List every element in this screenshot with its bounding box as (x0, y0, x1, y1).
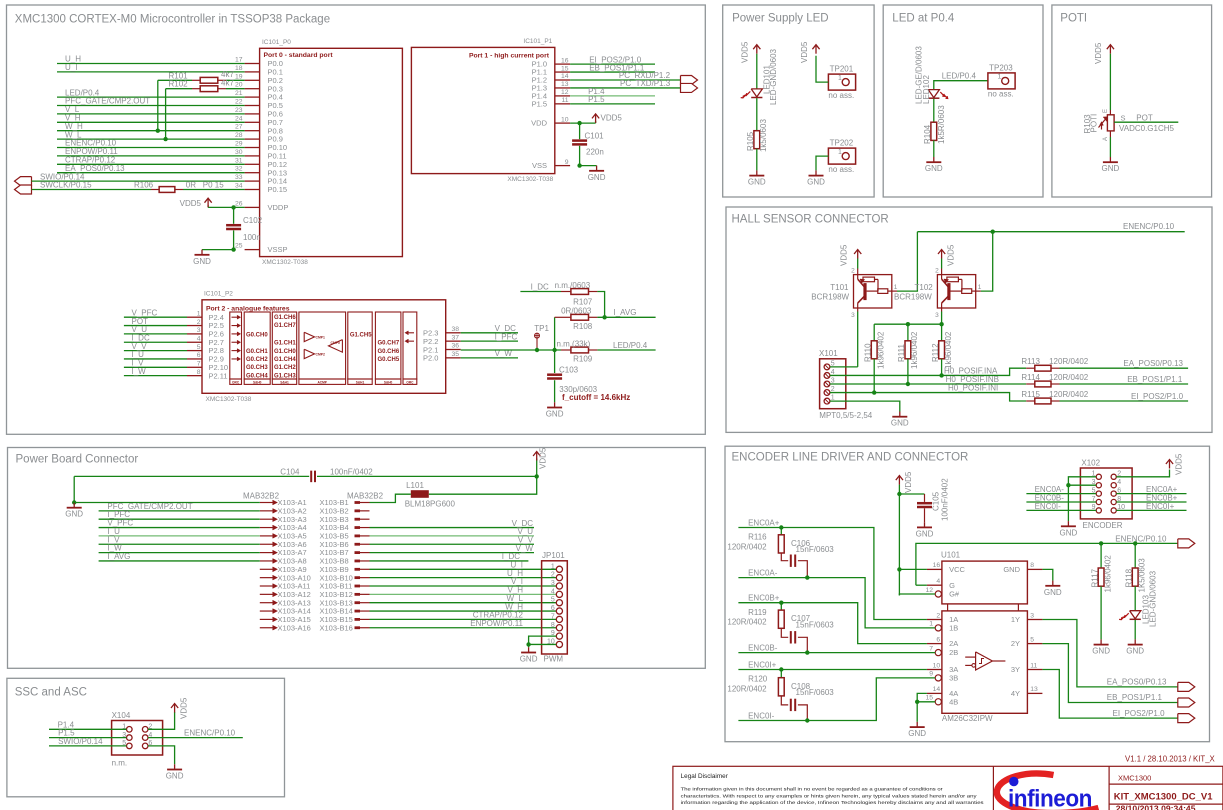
svg-text:POTI: POTI (1089, 114, 1098, 133)
svg-text:L101: L101 (406, 481, 424, 490)
wire C104 to VDD5 corner (317, 475, 537, 477)
X102 pin 2 (1111, 474, 1116, 479)
JP101 pin 7 (556, 616, 562, 622)
connector pin X103-A10 (260, 577, 273, 579)
svg-text:G1.CH0: G1.CH0 (274, 349, 296, 355)
svg-text:JP101: JP101 (542, 551, 565, 560)
connector pin X103-B8 (355, 560, 361, 563)
wire net ENC0I- (738, 678, 935, 721)
IC IC101_P1 block (Port 1) (411, 47, 554, 173)
wire net W_H X103-B14 to JP101 pin 6 (370, 610, 557, 612)
svg-text:37: 37 (451, 334, 459, 341)
junction C107 ENC0B- (805, 650, 809, 654)
ground at VSSP (202, 249, 234, 251)
svg-text:9: 9 (929, 671, 933, 678)
svg-text:23: 23 (235, 107, 243, 114)
svg-text:GND: GND (807, 178, 825, 187)
pin 16 P1.0 of IC101_P1 (555, 63, 570, 65)
svg-text:120R/0402: 120R/0402 (1049, 357, 1089, 366)
svg-text:T102: T102 (915, 283, 934, 292)
wire net PC_TXD/P1.3 with port flag (570, 87, 680, 89)
junction VDDP (231, 205, 235, 209)
wire R107 to I_AVG junction (597, 292, 604, 318)
svg-text:POTI: POTI (1060, 13, 1087, 25)
wire net PFC_GATE/CMP2.OUT to X103-A2 (99, 510, 260, 512)
resistor R104 1k5R/0603 (933, 99, 935, 122)
ferrite bead L101 BLM18PG600 (411, 490, 429, 498)
X101 pin 3 (824, 381, 830, 387)
connector pin X103-A15 (260, 618, 273, 620)
wire net LED/P0.4 from pin 36 (461, 349, 561, 351)
wire net P1.5 (570, 103, 655, 105)
svg-text:35: 35 (451, 351, 459, 358)
svg-text:13: 13 (561, 81, 569, 88)
wire VDD5 to L101 (429, 476, 537, 494)
VDD5 arrow at VDD (570, 122, 596, 124)
wire net EA_POS0/P0.13 output (1042, 620, 1177, 687)
JP101 pin 3 (556, 583, 562, 589)
wire net V_W at pin 35 (461, 357, 518, 359)
X102 pin 5 (1096, 491, 1101, 496)
port flag SWCLK/P0.15 (15, 185, 32, 194)
testpoint TP203 (988, 73, 1015, 89)
wire net EB_POS1/P1.1 output (1042, 644, 1177, 703)
svg-text:4: 4 (551, 588, 555, 595)
wire TP201 to VDD5 (816, 56, 828, 82)
svg-text:VDD5: VDD5 (1094, 42, 1103, 64)
wire net ENC0A+ (738, 528, 927, 620)
svg-text:G0.CH5: G0.CH5 (378, 357, 400, 363)
wire net I_DC (124, 341, 187, 343)
U101 pin 9 3B (935, 675, 941, 681)
JP101 pin 6 (556, 608, 562, 614)
junction I_AVG (602, 315, 606, 319)
svg-text:29: 29 (235, 141, 243, 148)
U101 pin 2 1A (927, 619, 942, 621)
svg-text:7: 7 (551, 613, 555, 620)
svg-text:1: 1 (197, 310, 201, 317)
wire JP101 pin 9 to GND (529, 636, 557, 644)
svg-text:SWCLK/P0.15: SWCLK/P0.15 (40, 181, 92, 190)
pin 5 P2.8 of IC101_P2 (187, 350, 202, 352)
pin 20 P0.3 of IC101_P0 (245, 88, 260, 90)
pin 1 P2.4 of IC101_P2 (187, 316, 202, 318)
pin 3 P2.6 of IC101_P2 (187, 333, 202, 335)
wire net U_I X103-B9 to JP101 pin 1 (370, 568, 557, 570)
wire net V_PFC (124, 316, 187, 318)
U101 pin 10 3A (927, 669, 942, 671)
junction C108 ENC0I- (805, 718, 809, 722)
frame: Power Supply LED section box (723, 5, 874, 197)
T101 pin 2 emitter to VDD5 (857, 269, 859, 275)
svg-text:VDD5: VDD5 (1175, 453, 1184, 475)
svg-text:T101: T101 (830, 283, 849, 292)
pin 15 P1.1 of IC101_P1 (555, 71, 570, 73)
svg-text:11: 11 (1030, 662, 1037, 669)
svg-text:LED-GND/0603: LED-GND/0603 (1149, 570, 1158, 627)
svg-text:4Y: 4Y (1011, 689, 1020, 698)
resistor R116 120R/0402 (780, 528, 782, 535)
wire net V_V (124, 350, 187, 352)
port flag EB_POS1 (1178, 698, 1195, 707)
svg-text:C101: C101 (585, 132, 605, 141)
wire net EA_POS0/P0.13 to pin 32 (57, 172, 245, 174)
svg-text:G0.CH3: G0.CH3 (246, 365, 268, 371)
svg-text:GND: GND (1126, 647, 1144, 656)
svg-text:Legal Disclaimer: Legal Disclaimer (681, 773, 729, 780)
svg-text:I_AVG: I_AVG (614, 308, 637, 317)
JP101 pin 10 (556, 641, 562, 647)
X102 pin 9 (1096, 508, 1101, 513)
svg-text:SWIO/P0.14: SWIO/P0.14 (58, 737, 103, 746)
wire X102 pin2 to VDD5 (1116, 470, 1169, 477)
svg-text:XMC1300 CORTEX-M0 Microcontrol: XMC1300 CORTEX-M0 Microcontroller in TSS… (15, 14, 330, 26)
svg-text:R111: R111 (897, 344, 906, 362)
svg-text:6: 6 (551, 605, 555, 612)
IC101_P2 inner block S&H0 right (375, 312, 401, 379)
wire net ENC0I+ from X102 (1116, 509, 1186, 511)
VDD5 arrow LED101 (756, 46, 758, 54)
connector pin X103-B4 (355, 526, 361, 529)
svg-text:33: 33 (235, 174, 243, 181)
svg-text:36: 36 (451, 343, 459, 350)
resistor R115 120R/0402 (1026, 400, 1035, 402)
svg-text:U_I: U_I (65, 63, 77, 72)
svg-text:R114: R114 (1021, 373, 1040, 382)
junction on W_L (163, 137, 167, 141)
svg-text:LED-GE/D/0603: LED-GE/D/0603 (915, 46, 924, 104)
capacitor C107 15nF/0603 (790, 631, 792, 643)
svg-text:8: 8 (197, 369, 201, 376)
wire net SWIO/P0.14 to X104 pin5 (49, 745, 127, 747)
svg-text:1k96/0402: 1k96/0402 (1103, 555, 1112, 593)
wire net ENC0B- (738, 652, 935, 654)
svg-text:X102: X102 (1081, 459, 1100, 468)
wire net ENENC/P0.10 top rail (917, 231, 1184, 233)
svg-text:5: 5 (197, 344, 201, 351)
svg-text:3Y: 3Y (1011, 665, 1020, 674)
wire net I_U to X103-A5 (99, 535, 260, 537)
svg-text:MPT0,5/5-2,54: MPT0,5/5-2,54 (819, 411, 872, 420)
svg-text:GND: GND (916, 529, 934, 538)
VDD5 arrow T102 (941, 251, 943, 259)
wire net U_H X103-B10 to JP101 pin 2 (370, 577, 557, 579)
svg-text:LED-GND/0603: LED-GND/0603 (769, 48, 778, 105)
ground POTI (1109, 137, 1111, 157)
svg-text:VDD5: VDD5 (180, 199, 202, 208)
capacitor C104 100nF/0402 (310, 471, 312, 483)
wire net ENC0A- (738, 578, 935, 628)
svg-text:XMC1300: XMC1300 (1118, 773, 1151, 782)
pin 27 P0.8 of IC101_P0 (245, 130, 260, 132)
wire net ENC0I+ (738, 669, 927, 671)
connector pin X103-B7 (355, 551, 361, 554)
pin 24 P0.7 of IC101_P0 (245, 121, 260, 123)
svg-text:4: 4 (197, 335, 201, 342)
svg-text:POT: POT (1136, 113, 1153, 122)
svg-text:VCC: VCC (949, 565, 965, 574)
svg-text:1: 1 (551, 563, 555, 570)
ground SSC (174, 764, 176, 769)
pin 19 P0.2 of IC101_P0 (245, 79, 260, 81)
wire net U_I to pin 18 (57, 71, 245, 73)
wire X101 pin1 to GND (830, 401, 900, 411)
capacitor C106 15nF/0603 (790, 555, 792, 567)
resistor R112 1k96/0402 (941, 324, 943, 341)
connector pin X103-B10 (355, 576, 361, 579)
svg-text:5: 5 (1030, 636, 1034, 643)
svg-text:VADC0.G1CH5: VADC0.G1CH5 (1119, 124, 1175, 133)
svg-text:AM26C32IPW: AM26C32IPW (942, 714, 993, 723)
wire net V_H X103-B12 to JP101 pin 4 (370, 593, 557, 595)
svg-text:8: 8 (1030, 562, 1034, 569)
wire net ENC0B+ (738, 603, 927, 644)
svg-text:15: 15 (925, 695, 933, 702)
junction R116 (779, 525, 783, 529)
resistor R107 n.m./0603 (561, 291, 570, 293)
wire X104 pin6 to GND (148, 746, 175, 764)
testpoint TP202 (828, 148, 855, 164)
wire net I_AVG to X103-A8 (99, 560, 260, 562)
U101 pin 13 4Y (1027, 692, 1042, 694)
svg-text:ORC: ORC (232, 380, 240, 384)
svg-text:8: 8 (551, 622, 555, 629)
svg-text:31: 31 (235, 157, 243, 164)
resistor R120 120R/0402 (780, 670, 782, 678)
svg-text:2B: 2B (949, 648, 958, 657)
svg-text:4: 4 (936, 578, 940, 585)
wire net P1.4 to X104 pin1 (49, 728, 127, 730)
wire net I_U (124, 358, 187, 360)
svg-text:IC101_P1: IC101_P1 (523, 38, 552, 45)
svg-text:220n: 220n (586, 147, 604, 156)
connector pin X103-B13 (355, 601, 361, 604)
wire net V_U (124, 333, 187, 335)
junction R120 (779, 667, 783, 671)
T101 pin 1 base to ENENC (892, 290, 897, 292)
connector pin X103-A1 (260, 502, 273, 504)
svg-text:24: 24 (235, 115, 243, 122)
wire net H0_POSIF.INI from X101 pin2 (830, 393, 1026, 401)
pin 8 P2.11 of IC101_P2 (187, 375, 202, 377)
IC101_P2 inner block S&H0 left (244, 312, 270, 379)
resistor R118 1K5/0603 (1134, 543, 1136, 568)
wire net EI_POS2/P1.0 hall (1060, 400, 1189, 402)
pin 10 VDD of IC101_P1 (555, 122, 570, 124)
wire net V_I X103-B11 to JP101 pin 3 (370, 585, 557, 587)
JP101 pin 4 (556, 591, 562, 597)
svg-text:S&H0: S&H0 (384, 380, 393, 384)
svg-text:VSSP: VSSP (268, 245, 288, 254)
wire net ENC0A- to X102 (1026, 493, 1096, 495)
svg-text:C105: C105 (932, 491, 941, 511)
frame: Power Board Connector section box (8, 448, 706, 669)
U101 block connectors (947, 604, 949, 611)
wire L101 to X103-B1 (370, 494, 411, 502)
wire G# to VCC net (899, 594, 935, 595)
svg-text:G1.CH6: G1.CH6 (274, 315, 296, 321)
svg-text:2Y: 2Y (1011, 639, 1020, 648)
wire net ENC0B- to X102 (1026, 501, 1096, 503)
svg-text:17: 17 (235, 57, 243, 64)
svg-text:GND: GND (908, 729, 926, 738)
pin 26 VDDP of IC101_P0 (245, 206, 260, 208)
svg-text:ENENC/P0.10: ENENC/P0.10 (184, 729, 236, 738)
connector pin X103-A7 (260, 552, 273, 554)
JP101 pin 8 (556, 625, 562, 631)
wire pullup rail (874, 323, 941, 325)
junction R112 INA (939, 373, 943, 377)
svg-text:HALL SENSOR CONNECTOR: HALL SENSOR CONNECTOR (732, 214, 889, 226)
svg-text:S&H1: S&H1 (356, 380, 365, 384)
pin 12 P1.4 of IC101_P1 (555, 95, 570, 97)
X101 pin 5 (824, 364, 830, 370)
svg-text:ENC0B+: ENC0B+ (748, 594, 780, 603)
pin 14 P1.2 of IC101_P1 (555, 79, 570, 81)
svg-text:16: 16 (933, 562, 941, 569)
svg-text:R119: R119 (748, 608, 767, 617)
svg-text:G#: G# (949, 590, 960, 599)
wire net LED/P0.4 to TP203 (934, 81, 988, 90)
T102 pin 1 base to ENENC (976, 290, 981, 292)
svg-text:1K5/0603: 1K5/0603 (1138, 558, 1147, 593)
svg-text:R108: R108 (573, 322, 593, 331)
svg-text:TP1: TP1 (534, 324, 549, 333)
wire net V_W from X103-B7 (370, 552, 535, 554)
pin 28 P0.9 of IC101_P0 (245, 138, 260, 140)
svg-text:30: 30 (235, 149, 243, 156)
IC U101_P0 block (IC101_P0 Port 0) (260, 48, 403, 256)
svg-text:3: 3 (935, 312, 939, 319)
wire net I_W to X103-A7 (99, 552, 260, 554)
X104 pin 3 (127, 735, 133, 741)
svg-text:ENC0I+: ENC0I+ (748, 660, 777, 669)
svg-text:n.m.: n.m. (112, 758, 128, 767)
JP101 pin 1 (556, 566, 562, 572)
JP101 pin 2 (556, 575, 562, 581)
wire R102 to W_L (165, 89, 167, 139)
svg-text:I_AVG: I_AVG (107, 552, 130, 561)
svg-text:XMC1302-T038: XMC1302-T038 (507, 176, 553, 183)
svg-text:14: 14 (561, 73, 569, 80)
junction rail T102/R112 (939, 322, 943, 326)
svg-text:BLM18PG600: BLM18PG600 (405, 500, 456, 509)
resistor R113 120R/0402 (1026, 367, 1035, 369)
svg-text:TP202: TP202 (830, 139, 854, 148)
svg-text:ORC: ORC (406, 380, 414, 384)
svg-text:no ass.: no ass. (988, 90, 1014, 99)
svg-text:E: E (1103, 109, 1109, 113)
pin 13 P1.3 of IC101_P1 (555, 87, 570, 89)
connector pin X103-B3 (355, 518, 361, 521)
connector pin X103-B2 (355, 509, 361, 512)
svg-text:PC_TXD/P1.3: PC_TXD/P1.3 (620, 79, 671, 88)
resistor R102 4k7 (166, 88, 192, 90)
junction R111 INB (906, 382, 910, 386)
wire net V_L to pin 23 (57, 113, 245, 115)
connector pin X103-B12 (355, 593, 361, 596)
T102 pin 2 emitter to VDD5 (941, 269, 943, 275)
U101 pin 6 2A (927, 643, 942, 645)
junction VDD5 C105 (897, 492, 901, 496)
pin 33 P0.14 of IC101_P0 (245, 180, 260, 182)
svg-text:ENENC/P0.10: ENENC/P0.10 (1123, 222, 1175, 231)
wire net ENENC/P0.10 encoder (1101, 542, 1178, 544)
connector pin X103-A11 (260, 585, 273, 587)
pin 37 P2.2 of IC101_P2 (446, 340, 461, 342)
wire net POT from wiper S (1114, 121, 1178, 123)
wire GND rail left (73, 476, 75, 502)
wire net W_H to pin 27 (57, 130, 245, 132)
svg-text:GND: GND (891, 419, 909, 428)
svg-text:18: 18 (235, 65, 243, 72)
svg-text:ENC0I-: ENC0I- (748, 711, 775, 720)
connector pin X103-B11 (355, 585, 361, 588)
svg-text:IC101_P0: IC101_P0 (262, 39, 291, 46)
ground X101 (899, 412, 901, 417)
ground power board left (73, 503, 75, 508)
svg-text:EB_POS1/P1.1: EB_POS1/P1.1 (1107, 693, 1163, 702)
testpoint TP201 (828, 74, 855, 90)
svg-text:R107: R107 (573, 298, 593, 307)
IC101_P2 inner block ORC right (403, 312, 417, 379)
wire net CTRAP/P0.12 X103-B15 to JP101 pin 7 (370, 618, 557, 620)
svg-text:ACMP: ACMP (318, 380, 328, 384)
port flag EI_POS2 (1178, 714, 1195, 723)
pin 17 P0.0 of IC101_P0 (245, 63, 260, 65)
svg-text:I_DC: I_DC (531, 283, 549, 292)
svg-text:27: 27 (235, 124, 243, 131)
svg-text:15nF/0603: 15nF/0603 (796, 545, 835, 554)
junction R119 (779, 601, 783, 605)
svg-text:1k5/0603: 1k5/0603 (759, 119, 768, 152)
svg-text:G0.CH6: G0.CH6 (378, 349, 400, 355)
svg-text:2: 2 (851, 267, 855, 274)
X101 pin 2 (824, 390, 830, 396)
junction GND rail (72, 500, 76, 504)
JP101 pin 9 (556, 633, 562, 639)
svg-text:H0_POSIF.INI: H0_POSIF.INI (948, 383, 998, 392)
ground U101 pin8 (1052, 581, 1054, 586)
svg-text:X103-A16: X103-A16 (278, 623, 311, 632)
wire net V_H to pin 24 (57, 121, 245, 123)
connector pin X103-A8 (260, 560, 273, 562)
junction 4B (915, 700, 919, 704)
svg-text:P0 15: P0 15 (203, 181, 224, 190)
pin 6 P2.9 of IC101_P2 (187, 358, 202, 360)
pin 32 P0.13 of IC101_P0 (245, 172, 260, 174)
junction JP101 GND (526, 642, 530, 646)
wire net EB_POS1/P1.1 hall (1060, 383, 1189, 385)
svg-text:34: 34 (235, 183, 243, 190)
connector pin X103-A12 (260, 593, 273, 595)
ground at VSS (580, 165, 597, 167)
svg-text:characteristics. With respect: characteristics. With respect to any exa… (681, 793, 978, 798)
wire net V_V from X103-B6 (370, 543, 535, 545)
pin 34 P0.15 of IC101_P0 (245, 189, 260, 191)
transistor T102 BCR198W (937, 275, 975, 308)
svg-text:VDD5: VDD5 (741, 41, 750, 63)
svg-text:P1.5: P1.5 (532, 99, 547, 108)
pin 36 P2.1 of IC101_P2 (446, 349, 461, 351)
U101 pin 1 1B (935, 625, 941, 631)
VDD5 arrow SSC (174, 705, 176, 713)
svg-text:LED at P0.4: LED at P0.4 (892, 13, 955, 25)
wire X103-A1 to GND rail (74, 502, 260, 504)
potentiometer R103 POTI (1109, 110, 1111, 115)
svg-text:EB_POS1/P1.1: EB_POS1/P1.1 (1127, 375, 1183, 384)
svg-text:U101: U101 (941, 551, 961, 560)
